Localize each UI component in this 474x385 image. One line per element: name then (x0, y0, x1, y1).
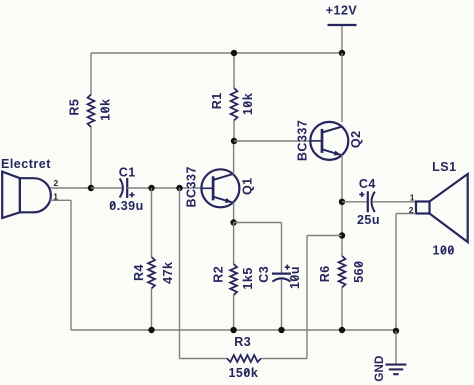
speaker LS1 (416, 160, 468, 242)
node R1 top rail junction (231, 50, 237, 56)
wire ground rail (71, 329, 396, 331)
R5 value 10k (98, 99, 112, 121)
node A junction (88, 185, 94, 191)
wire Q1 emitter to C3 (234, 222, 282, 224)
svg-text:Electret: Electret (1, 157, 51, 171)
wire C4 to speaker pin1 (372, 201, 416, 203)
wire speaker pin2 down (396, 213, 416, 215)
wire R4 bottom lead (151, 289, 153, 331)
resistor R3 (227, 335, 261, 362)
wire mic pin1 down to ground rail (50, 199, 71, 201)
ground GND (374, 356, 406, 382)
node Q1 emitter junction (230, 219, 236, 225)
R1 value 10k (241, 93, 255, 115)
svg-text:25u: 25u (357, 213, 380, 227)
svg-text:0.39u: 0.39u (109, 199, 143, 213)
svg-text:R4: R4 (132, 264, 146, 281)
C3 value 10u (288, 266, 302, 289)
node C4 junction (339, 199, 345, 205)
transistor Q2 BC337 (310, 122, 348, 160)
wire Q1 collector lead (233, 141, 235, 175)
wire R2 bottom lead (233, 295, 235, 330)
node GND junction (393, 328, 399, 334)
R3 value 150k (228, 366, 258, 380)
wire mic pin2 to node A (50, 187, 91, 189)
node R6/R3 junction (339, 232, 345, 238)
svg-text:GND: GND (374, 356, 386, 382)
wire R5 top lead (90, 53, 92, 95)
wire R5 bottom lead (90, 127, 92, 188)
capacitor C1 (119, 165, 136, 198)
wire to ground symbol (395, 331, 397, 364)
node R2 ground junction (230, 327, 236, 333)
microphone MK1 Electret (1, 157, 51, 218)
wire C3 bottom lead (281, 280, 283, 331)
wire R3 left leg from node C (179, 188, 181, 359)
node C junction (Q1 base / R3) (176, 185, 182, 191)
R6 value 560 (352, 260, 366, 282)
capacitor C3 (257, 265, 291, 283)
svg-text:+12V: +12V (326, 4, 358, 18)
svg-text:R6: R6 (318, 265, 332, 282)
svg-text:BC337: BC337 (185, 166, 199, 207)
svg-text:R5: R5 (68, 99, 82, 116)
wire top rail (91, 52, 342, 54)
node R6 ground junction (339, 327, 345, 333)
wire R4 top lead (151, 188, 153, 257)
svg-text:1: 1 (410, 192, 415, 202)
svg-text:C4: C4 (359, 177, 376, 191)
svg-text:LS1: LS1 (432, 160, 456, 174)
+12V power symbol (326, 4, 358, 26)
wire R6 bottom lead (341, 288, 343, 331)
resistor R4 (132, 257, 155, 289)
wire +12V to top rail (341, 26, 343, 53)
svg-text:150k: 150k (228, 366, 258, 380)
resistor R6 (318, 256, 345, 288)
svg-text:R1: R1 (210, 92, 224, 109)
node top rail / +12V junction (339, 50, 345, 56)
wire C1 to Q1 base (127, 187, 201, 189)
node B junction (R4 top) (148, 185, 154, 191)
wire Q2 emitter to C4 (342, 201, 368, 203)
transistor Q1 BC337 (201, 169, 239, 207)
svg-text:R3: R3 (234, 335, 251, 349)
C1 value 0.39u (109, 199, 143, 213)
svg-text:1k5: 1k5 (241, 267, 255, 289)
resistor R1 (210, 88, 238, 121)
node Q1 collector junction (231, 138, 237, 144)
wire Q2 emitter lead (341, 155, 343, 256)
wire R1 top lead (233, 53, 235, 88)
node R4 ground junction (148, 327, 154, 333)
svg-text:C1: C1 (119, 165, 136, 179)
wire R2 top lead (233, 223, 235, 265)
svg-text:C3: C3 (257, 266, 271, 283)
svg-text:R2: R2 (212, 266, 226, 283)
resistor R2 (212, 264, 237, 295)
LS1 value 100 (433, 244, 455, 258)
svg-text:Q2: Q2 (349, 130, 363, 148)
wire Q1 emitter lead (233, 202, 235, 222)
wire R3 right leg to R6 top node (261, 358, 307, 360)
wire R1 bottom lead (233, 121, 235, 142)
wire Q2 collector lead (341, 53, 343, 122)
svg-text:Q1: Q1 (241, 177, 255, 195)
svg-text:47k: 47k (161, 262, 175, 284)
svg-text:2: 2 (54, 178, 59, 188)
node C3 ground junction (278, 327, 284, 333)
capacitor C4 (359, 177, 376, 212)
wire Q1 collector to Q2 base (234, 140, 310, 142)
wire node A to C1 (91, 187, 122, 189)
resistor R5 (68, 95, 95, 128)
svg-text:BC337: BC337 (295, 120, 309, 161)
